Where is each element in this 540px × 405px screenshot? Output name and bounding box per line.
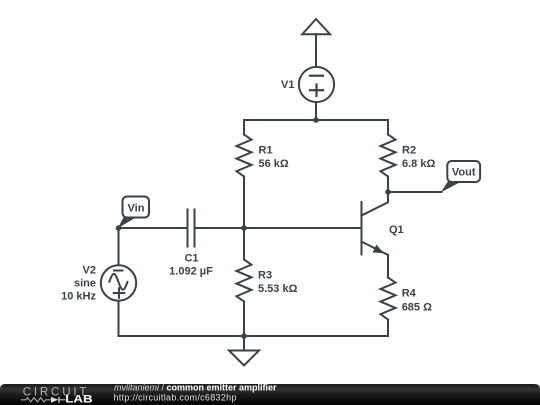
svg-text:10 kHz: 10 kHz [61, 291, 96, 303]
label R4 value [402, 288, 432, 314]
voltage source V2 [101, 265, 136, 300]
resistor R4 [381, 278, 396, 320]
wire bottom rail [119, 335, 389, 337]
node base junction [241, 225, 247, 231]
CircuitLab logo [21, 386, 93, 405]
resistor R2 [381, 135, 396, 177]
wire R3 bottom [243, 302, 245, 337]
transistor Q1 [362, 192, 389, 255]
label V2 value [61, 265, 96, 303]
wire V1 bottom [315, 102, 317, 120]
svg-text:Vout: Vout [452, 167, 476, 179]
node ground junction [241, 333, 247, 339]
svg-text:R4: R4 [402, 288, 417, 300]
label R1 value [259, 145, 289, 171]
wire V2 bottom [118, 301, 120, 336]
svg-text:R1: R1 [259, 145, 273, 157]
ground [229, 336, 259, 366]
svg-text:sine: sine [74, 278, 96, 290]
resistor R3 [237, 260, 252, 302]
wire V2 top [118, 228, 120, 266]
svg-text:6.8 kΩ: 6.8 kΩ [402, 158, 435, 170]
wire R3 top [243, 228, 245, 260]
svg-text:LAB: LAB [65, 393, 93, 405]
wire R4 bottom [387, 320, 389, 337]
svg-text:R3: R3 [258, 270, 272, 282]
power supply arrow (VCC) [302, 19, 330, 34]
svg-text:R2: R2 [402, 145, 416, 157]
footer title text [114, 382, 278, 402]
wire emitter [387, 255, 389, 278]
node Vin junction [116, 225, 122, 231]
node Vout flag [441, 161, 480, 192]
svg-text:V2: V2 [83, 265, 96, 277]
svg-text:Vin: Vin [128, 203, 145, 215]
node Vin flag [118, 197, 149, 229]
wire R2 bottom [387, 177, 389, 193]
svg-text:Q1: Q1 [389, 224, 404, 236]
wire base rail right [196, 227, 361, 229]
capacitor C1 [188, 210, 195, 247]
voltage source V1 [299, 67, 334, 102]
wire to Vout [388, 191, 442, 193]
svg-text:1.092 µF: 1.092 µF [169, 266, 213, 278]
svg-text:http://circuitlab.com/c6832hp: http://circuitlab.com/c6832hp [114, 392, 237, 402]
svg-text:685 Ω: 685 Ω [402, 302, 432, 314]
wire top rail [244, 120, 388, 135]
svg-text:5.53 kΩ: 5.53 kΩ [258, 283, 298, 295]
svg-text:V1: V1 [281, 79, 294, 91]
node collector junction [385, 189, 391, 195]
resistor R1 [237, 135, 252, 177]
label R2 value [402, 145, 435, 171]
wire R1 bottom [243, 177, 245, 229]
svg-text:C1: C1 [184, 253, 198, 265]
svg-text:56 kΩ: 56 kΩ [259, 158, 289, 170]
label C1 value [169, 253, 213, 278]
label R3 value [258, 270, 298, 296]
wire base rail left [119, 227, 187, 229]
svg-text:mviitaniemi / common emitter a: mviitaniemi / common emitter amplifier [114, 382, 277, 392]
node top rail junction [313, 117, 319, 123]
wire V1 top [315, 34, 317, 67]
